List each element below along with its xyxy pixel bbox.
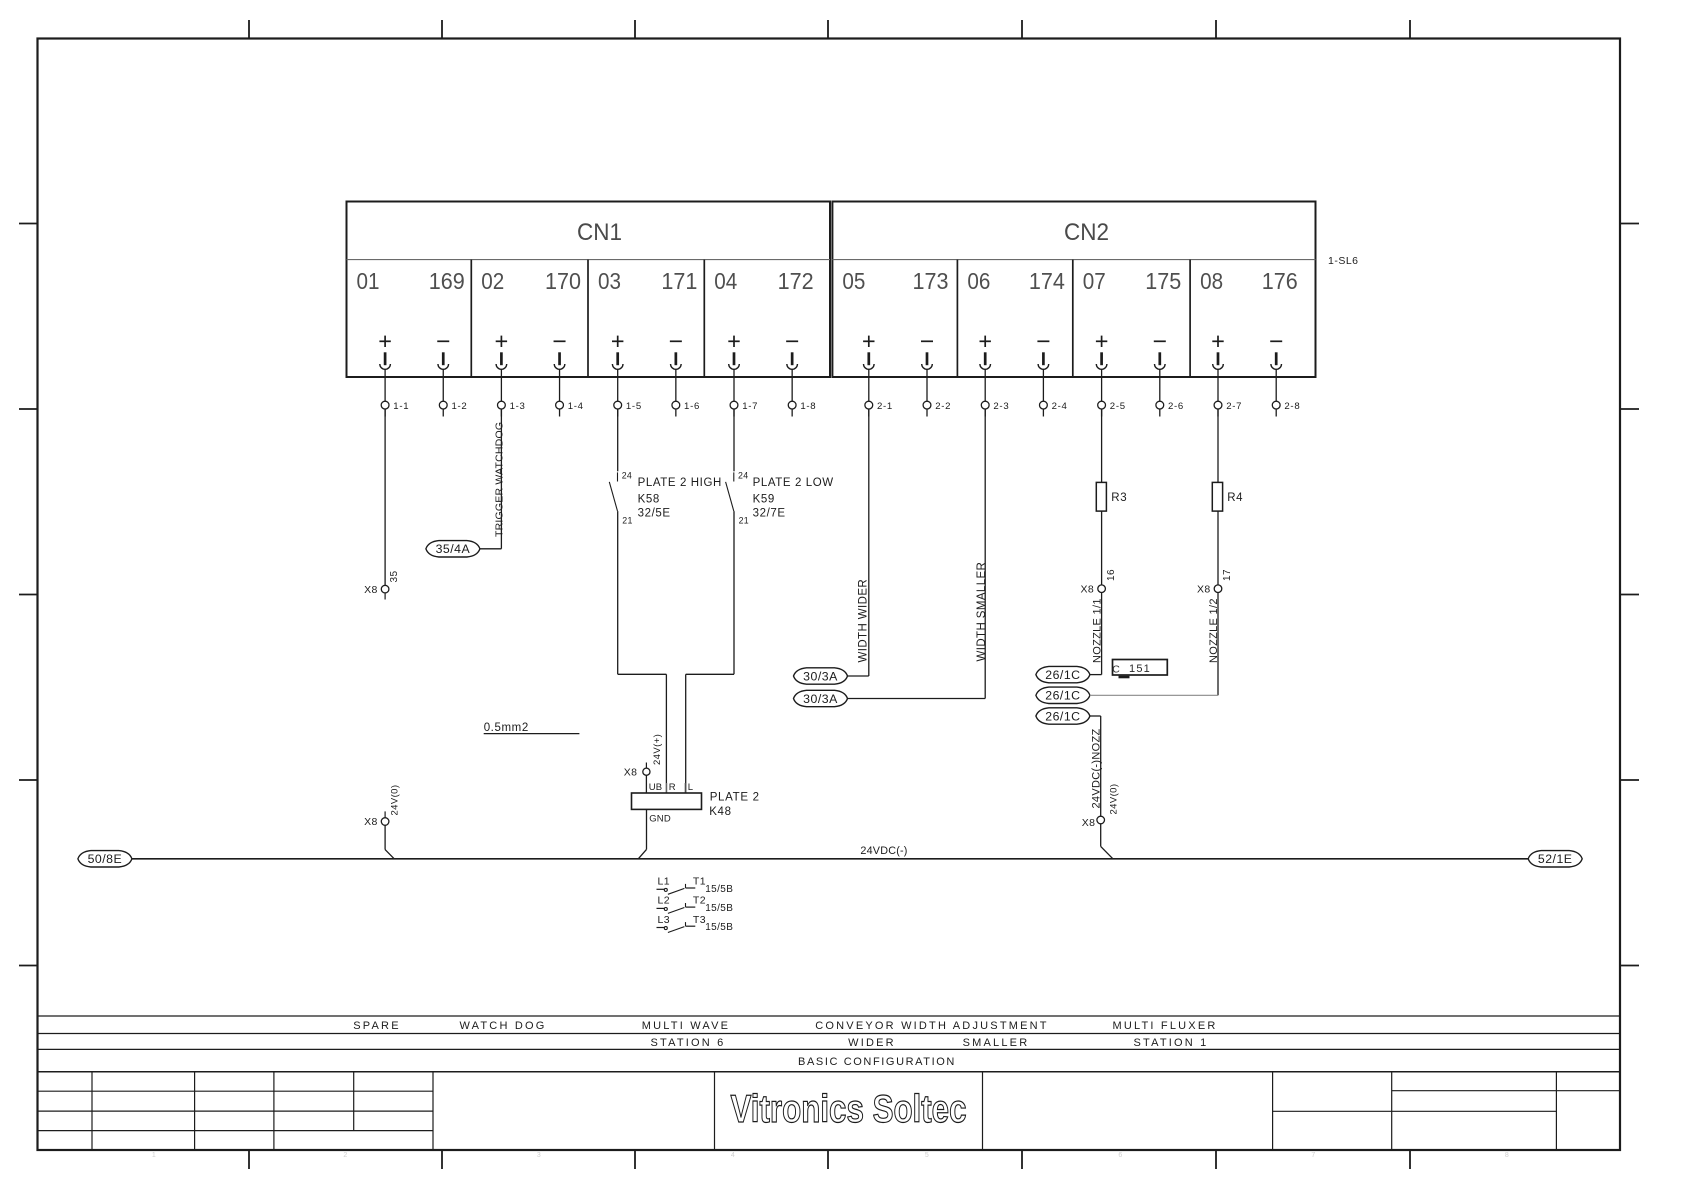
terminal clamp - above point 2-4 xyxy=(1037,341,1049,401)
wire X8 to 24VDC(-) rail xyxy=(385,825,394,859)
svg-text:GND: GND xyxy=(649,813,671,824)
wire X8 to rail (right) xyxy=(1101,824,1113,859)
connection point 1-6 xyxy=(672,401,700,417)
wire R3 to X8:16 xyxy=(1101,511,1103,585)
svg-text:R4: R4 xyxy=(1227,492,1243,504)
function label CONVEYOR WIDTH ADJUSTMENT xyxy=(815,1020,1048,1032)
svg-text:X8: X8 xyxy=(1081,583,1095,595)
pin label CN2 06 xyxy=(967,268,990,294)
pin label CN1 171 xyxy=(661,268,697,294)
svg-text:L1: L1 xyxy=(658,876,670,888)
logo Vitronics Soltec xyxy=(731,1088,967,1131)
function label SPARE xyxy=(353,1020,400,1032)
svg-text:WATCH DOG: WATCH DOG xyxy=(459,1020,546,1032)
terminal clamp + above point 1-1 xyxy=(379,336,390,402)
svg-text:2-1: 2-1 xyxy=(877,401,893,412)
svg-text:8: 8 xyxy=(1505,1152,1509,1159)
connection point 1-7 xyxy=(730,401,758,417)
wire 2-1 WIDTH WIDER xyxy=(858,409,870,676)
svg-text:21: 21 xyxy=(739,515,749,525)
svg-text:24V(+): 24V(+) xyxy=(652,734,663,765)
terminal clamp - above point 2-2 xyxy=(921,341,933,401)
svg-text:1-3: 1-3 xyxy=(510,401,526,412)
contact K59 PLATE 2 LOW xyxy=(726,409,834,525)
svg-text:24: 24 xyxy=(738,470,748,480)
svg-text:05: 05 xyxy=(842,268,865,294)
connection point 2-5 xyxy=(1098,401,1126,417)
svg-text:32/7E: 32/7E xyxy=(753,508,786,520)
svg-text:Vitronics Soltec: Vitronics Soltec xyxy=(731,1088,967,1131)
svg-text:5: 5 xyxy=(925,1152,929,1159)
contact L3/T3 15/5B xyxy=(657,914,734,933)
function label STATION 1 xyxy=(1133,1037,1208,1049)
svg-text:04: 04 xyxy=(714,268,737,294)
svg-text:35: 35 xyxy=(389,571,400,583)
svg-text:24VDC(-)NOZZ: 24VDC(-)NOZZ xyxy=(1090,729,1102,809)
svg-text:T2: T2 xyxy=(693,895,706,907)
function label SMALLER xyxy=(963,1037,1030,1049)
svg-text:1: 1 xyxy=(152,1152,156,1159)
svg-text:17: 17 xyxy=(1222,569,1233,581)
module PLATE 2 K48 xyxy=(632,782,760,824)
function label WIDER xyxy=(848,1037,896,1049)
svg-text:2: 2 xyxy=(343,1152,347,1159)
contact L2/T2 15/5B xyxy=(657,895,734,914)
pin label CN1 169 xyxy=(429,268,465,294)
function label MULTI FLUXER xyxy=(1112,1020,1217,1032)
svg-text:06: 06 xyxy=(967,268,990,294)
svg-text:2-2: 2-2 xyxy=(935,401,951,412)
svg-text:172: 172 xyxy=(778,268,814,294)
connection point X8:24V(0) right xyxy=(1082,784,1120,829)
wire 2-3 WIDTH SMALLER xyxy=(976,409,988,699)
function label MULTI WAVE xyxy=(642,1020,730,1032)
pin label CN2 174 xyxy=(1029,268,1065,294)
svg-text:SPARE: SPARE xyxy=(353,1020,400,1032)
function label BASIC CONFIGURATION xyxy=(798,1056,956,1068)
connection point X8:16 xyxy=(1081,569,1117,595)
pin label CN2 08 xyxy=(1200,268,1223,294)
svg-text:1-5: 1-5 xyxy=(626,401,642,412)
svg-text:170: 170 xyxy=(545,268,581,294)
svg-text:MULTI FLUXER: MULTI FLUXER xyxy=(1112,1020,1217,1032)
svg-text:171: 171 xyxy=(661,268,697,294)
reference oval 50/8E xyxy=(78,851,132,867)
wire R4 to X8:17 xyxy=(1217,511,1219,585)
wire K58 to PLATE2 R input xyxy=(618,511,667,793)
terminal clamp + above point 1-5 xyxy=(612,336,623,402)
reference oval 26/1C (nozzle 1/1) xyxy=(1036,666,1102,682)
connection point 2-4 xyxy=(1040,401,1068,417)
svg-text:R3: R3 xyxy=(1111,492,1127,504)
contact L1/T1 15/5B xyxy=(657,876,734,895)
wire 1-3 TRIGGER WATCHDOG xyxy=(493,409,505,549)
svg-text:35/4A: 35/4A xyxy=(436,542,471,556)
svg-text:174: 174 xyxy=(1029,268,1065,294)
svg-text:WIDTH SMALLER: WIDTH SMALLER xyxy=(976,562,988,662)
pin label CN1 04 xyxy=(714,268,737,294)
svg-text:MULTI WAVE: MULTI WAVE xyxy=(642,1020,730,1032)
resistor R3 xyxy=(1096,482,1127,511)
svg-text:SMALLER: SMALLER xyxy=(963,1037,1030,1049)
wire NOZZLE 1/2 xyxy=(1208,593,1220,696)
connection point 1-2 xyxy=(439,401,467,417)
pin label CN1 172 xyxy=(778,268,814,294)
wire NOZZLE 1/1 xyxy=(1092,593,1104,675)
connection point X8:17 xyxy=(1197,569,1233,595)
svg-text:24V(0): 24V(0) xyxy=(1109,784,1120,815)
pin label CN2 176 xyxy=(1262,268,1298,294)
svg-text:24: 24 xyxy=(622,470,632,480)
terminal clamp + above point 2-5 xyxy=(1096,336,1107,402)
svg-text:4: 4 xyxy=(731,1152,735,1159)
svg-text:STATION 1: STATION 1 xyxy=(1133,1037,1208,1049)
terminal clamp - above point 2-6 xyxy=(1154,341,1166,401)
wire K59 to PLATE2 L input xyxy=(686,511,734,793)
reference oval 35/4A xyxy=(426,541,502,557)
wire 1-1 to X8:35 xyxy=(384,409,386,585)
svg-text:1-7: 1-7 xyxy=(742,401,758,412)
connection point 2-1 xyxy=(865,401,893,417)
svg-text:X8: X8 xyxy=(364,816,378,828)
svg-text:03: 03 xyxy=(598,268,621,294)
svg-text:PLATE 2 LOW: PLATE 2 LOW xyxy=(753,477,834,489)
reference oval 52/1E xyxy=(1528,851,1582,867)
svg-text:2-4: 2-4 xyxy=(1052,401,1068,412)
terminal clamp + above point 1-3 xyxy=(496,336,507,402)
svg-text:1-2: 1-2 xyxy=(451,401,467,412)
svg-text:15/5B: 15/5B xyxy=(705,884,733,895)
svg-text:21: 21 xyxy=(622,515,632,525)
svg-text:2-8: 2-8 xyxy=(1284,401,1300,412)
svg-text:X8: X8 xyxy=(1197,583,1211,595)
svg-text:01: 01 xyxy=(357,268,380,294)
wire PLATE2 GND to rail xyxy=(638,809,646,858)
terminal clamp + above point 2-7 xyxy=(1212,336,1223,402)
terminal clamp - above point 2-8 xyxy=(1270,341,1282,401)
reference oval 30/3A (wider) xyxy=(794,668,869,684)
svg-text:16: 16 xyxy=(1106,569,1117,581)
connector CN2 xyxy=(832,202,1315,378)
svg-text:6: 6 xyxy=(1118,1152,1122,1159)
svg-text:PLATE 2: PLATE 2 xyxy=(710,791,760,803)
svg-text:R: R xyxy=(669,782,676,793)
pin label CN1 170 xyxy=(545,268,581,294)
svg-text:151: 151 xyxy=(1129,663,1151,675)
svg-text:24VDC(-): 24VDC(-) xyxy=(860,845,907,857)
svg-text:3: 3 xyxy=(537,1152,541,1159)
svg-text:CN2: CN2 xyxy=(1064,219,1109,246)
svg-text:NOZZLE 1/1: NOZZLE 1/1 xyxy=(1092,598,1104,663)
reference oval 26/1C (nozzle 1/2) xyxy=(1036,687,1218,703)
svg-text:2-6: 2-6 xyxy=(1168,401,1184,412)
svg-text:7: 7 xyxy=(1311,1152,1315,1159)
terminal clamp - above point 1-6 xyxy=(670,341,682,401)
pin label CN2 07 xyxy=(1083,268,1106,294)
svg-text:1-SL6: 1-SL6 xyxy=(1328,255,1359,267)
pin label CN1 01 xyxy=(357,268,380,294)
terminal clamp - above point 1-2 xyxy=(437,341,449,401)
svg-text:169: 169 xyxy=(429,268,465,294)
svg-text:26/1C: 26/1C xyxy=(1045,709,1080,723)
svg-text:T1: T1 xyxy=(693,876,706,888)
svg-text:1-6: 1-6 xyxy=(684,401,700,412)
svg-text:0.5mm2: 0.5mm2 xyxy=(484,722,529,734)
connection point 1-5 xyxy=(614,401,642,417)
device box 151 xyxy=(1112,660,1167,678)
svg-text:L3: L3 xyxy=(658,914,670,926)
svg-text:K48: K48 xyxy=(709,806,732,818)
connection point 1-4 xyxy=(556,401,584,417)
svg-text:CN1: CN1 xyxy=(577,219,622,246)
reference oval 30/3A (smaller) xyxy=(794,690,986,706)
connection point 2-6 xyxy=(1156,401,1184,417)
svg-text:T3: T3 xyxy=(693,914,706,926)
svg-text:2-5: 2-5 xyxy=(1110,401,1126,412)
svg-text:175: 175 xyxy=(1145,268,1181,294)
svg-text:30/3A: 30/3A xyxy=(803,692,838,706)
connection point 2-3 xyxy=(981,401,1009,417)
svg-text:STATION 6: STATION 6 xyxy=(650,1037,725,1049)
svg-text:32/5E: 32/5E xyxy=(638,508,671,520)
connector CN1 xyxy=(347,202,831,378)
svg-text:50/8E: 50/8E xyxy=(88,852,123,866)
svg-text:CONVEYOR WIDTH ADJUSTMENT: CONVEYOR WIDTH ADJUSTMENT xyxy=(815,1020,1048,1032)
svg-text:PLATE 2 HIGH: PLATE 2 HIGH xyxy=(638,477,722,489)
svg-text:1-8: 1-8 xyxy=(800,401,816,412)
svg-text:TRIGGER WATCHDOG: TRIGGER WATCHDOG xyxy=(493,422,505,537)
connection point X8:35 xyxy=(364,571,400,600)
svg-text:UB: UB xyxy=(649,782,663,793)
svg-text:07: 07 xyxy=(1083,268,1106,294)
terminal clamp + above point 2-1 xyxy=(863,336,874,402)
svg-text:WIDER: WIDER xyxy=(848,1037,896,1049)
svg-text:2-3: 2-3 xyxy=(993,401,1009,412)
pin label CN2 173 xyxy=(913,268,949,294)
terminal clamp + above point 1-7 xyxy=(728,336,739,402)
connection point 2-2 xyxy=(923,401,951,417)
svg-text:X8: X8 xyxy=(1082,817,1096,829)
wire 2-7 to R4 xyxy=(1217,409,1219,482)
svg-text:26/1C: 26/1C xyxy=(1045,668,1080,682)
svg-text:1-4: 1-4 xyxy=(568,401,584,412)
function label WATCH DOG xyxy=(459,1020,546,1032)
terminal clamp - above point 1-8 xyxy=(786,341,798,401)
terminal clamp + above point 2-3 xyxy=(980,336,991,402)
net rail 24VDC(-) xyxy=(132,845,1528,859)
wire 2-5 to R3 xyxy=(1101,409,1103,482)
svg-text:52/1E: 52/1E xyxy=(1538,852,1573,866)
svg-text:173: 173 xyxy=(913,268,949,294)
svg-text:30/3A: 30/3A xyxy=(803,669,838,683)
connection point 2-8 xyxy=(1272,401,1300,417)
reference oval 26/1C (24VDC nozzle return) xyxy=(1036,708,1101,724)
contact K58 PLATE 2 HIGH xyxy=(609,409,722,525)
pin label CN2 175 xyxy=(1145,268,1181,294)
svg-text:BASIC CONFIGURATION: BASIC CONFIGURATION xyxy=(798,1056,956,1068)
svg-text:2-7: 2-7 xyxy=(1226,401,1242,412)
connection point X8:24V(0) left xyxy=(364,785,400,829)
svg-text:C: C xyxy=(1112,664,1120,676)
svg-text:X8: X8 xyxy=(624,767,638,779)
svg-text:176: 176 xyxy=(1262,268,1298,294)
connection point 2-7 xyxy=(1214,401,1242,417)
svg-text:1-1: 1-1 xyxy=(393,401,409,412)
wire X8 to PLATE2 UB input xyxy=(645,775,647,793)
svg-text:L: L xyxy=(688,782,693,793)
svg-text:24V(0): 24V(0) xyxy=(389,785,400,816)
connection point 1-1 xyxy=(381,401,409,417)
connection point 1-3 xyxy=(498,401,526,417)
resistor R4 xyxy=(1212,482,1243,511)
pin label CN2 05 xyxy=(842,268,865,294)
svg-text:K58: K58 xyxy=(638,494,660,506)
svg-text:NOZZLE 1/2: NOZZLE 1/2 xyxy=(1208,598,1220,663)
terminal clamp - above point 1-4 xyxy=(554,341,566,401)
svg-text:X8: X8 xyxy=(364,584,378,596)
note 0.5mm2 xyxy=(484,722,580,734)
svg-text:K59: K59 xyxy=(753,494,775,506)
cable label 1-SL6 xyxy=(1328,255,1359,267)
svg-text:02: 02 xyxy=(481,268,504,294)
svg-text:WIDTH WIDER: WIDTH WIDER xyxy=(858,579,870,663)
function label STATION 6 xyxy=(650,1037,725,1049)
svg-text:15/5B: 15/5B xyxy=(705,922,733,933)
pin label CN1 03 xyxy=(598,268,621,294)
svg-text:L2: L2 xyxy=(658,895,670,907)
connection point X8:24V(+) xyxy=(624,734,663,779)
svg-text:08: 08 xyxy=(1200,268,1223,294)
wire 24VDC(-)NOZZ xyxy=(1090,716,1102,816)
connection point 1-8 xyxy=(788,401,816,417)
svg-text:15/5B: 15/5B xyxy=(705,903,733,914)
pin label CN1 02 xyxy=(481,268,504,294)
svg-text:26/1C: 26/1C xyxy=(1045,689,1080,703)
